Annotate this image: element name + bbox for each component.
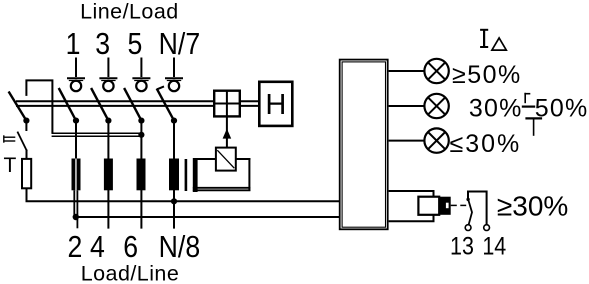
- CT primary winding pole N: [169, 159, 179, 191]
- secondary loop top edge: [197, 158, 250, 160]
- terminal X5 plug symbol: [132, 58, 150, 92]
- CT core: [185, 159, 188, 191]
- lamp HL2: [424, 94, 448, 118]
- actuator plunger block: [439, 197, 451, 215]
- label 13: [450, 232, 474, 260]
- switch blade pole 3: [124, 88, 141, 121]
- svg-text:6: 6: [123, 230, 138, 264]
- junction dot pole 2: [105, 118, 111, 124]
- terminal label N/8: [159, 230, 200, 264]
- lamp HL3: [424, 128, 448, 152]
- junction dot wire A at pole N: [171, 198, 177, 204]
- lamp HL1: [424, 59, 448, 83]
- aux contact pivot nub: [466, 198, 469, 201]
- mechanism double bar left: [16, 101, 213, 106]
- terminal circle 13: [465, 225, 471, 231]
- wire B tap to module: [76, 216, 339, 218]
- test button contact blade: [17, 132, 27, 151]
- terminal X3 plug symbol: [99, 58, 117, 92]
- terminal label 1: [66, 27, 81, 61]
- switch blade pole 2: [91, 88, 108, 121]
- crossed square horizontal divider: [213, 103, 241, 105]
- wire pole 1 upper: [75, 121, 77, 159]
- indicator box H: [259, 82, 292, 126]
- mechanism double bar right: [241, 101, 259, 106]
- terminal label 6: [123, 230, 138, 264]
- actuator inner square: [418, 197, 439, 215]
- junction dot pole 1 tap: [73, 214, 79, 220]
- range divider symbol: [522, 93, 542, 136]
- electronic module box outer: [340, 60, 388, 230]
- label 14: [482, 232, 506, 260]
- secondary loop bottom double edge: [193, 188, 251, 191]
- svg-text:N/7: N/7: [159, 27, 200, 61]
- wire button to resistor: [26, 150, 28, 160]
- svg-text:≥30%: ≥30%: [497, 190, 568, 221]
- actuator housing bottom: [389, 220, 435, 222]
- aux contact top wire: [468, 192, 487, 225]
- switch blade test pole: [9, 92, 27, 121]
- terminal label 4: [90, 230, 105, 264]
- CT primary winding pole 2: [104, 159, 113, 191]
- wire lamp 1: [389, 70, 425, 72]
- svg-text:4: 4: [90, 230, 105, 264]
- svg-text:50%: 50%: [535, 94, 589, 122]
- coupler crossed square U1: [214, 91, 240, 117]
- test button actuator symbol: [4, 135, 16, 142]
- wire lamp 3: [389, 140, 425, 142]
- svg-text:14: 14: [482, 232, 506, 260]
- switch blade pole 1: [59, 88, 76, 121]
- junction dot pole 3: [138, 118, 144, 124]
- plunger slot: [446, 203, 449, 209]
- svg-text:T: T: [4, 154, 17, 177]
- svg-text:N/8: N/8: [159, 230, 200, 264]
- terminal circle 14: [484, 225, 490, 231]
- test tap double wire to pole 3: [52, 133, 142, 136]
- wire pole 2: [107, 121, 109, 229]
- wire lamp 2: [389, 105, 425, 107]
- mechanical link dash 2: [460, 204, 466, 206]
- junction dot test pole: [23, 118, 29, 124]
- switch blade pole N: [157, 89, 174, 121]
- actuator housing top: [389, 190, 435, 192]
- svg-text:13: 13: [450, 232, 474, 260]
- svg-text:3: 3: [95, 27, 110, 61]
- wire pole 1 lower right: [76, 190, 78, 228]
- junction dot node tap pole3: [138, 132, 144, 138]
- terminal XN7 plug symbol: [165, 58, 183, 92]
- svg-text:Load/Line: Load/Line: [81, 262, 180, 284]
- mechanical link dash 1: [451, 204, 457, 206]
- actuator housing right: [433, 191, 435, 221]
- junction dot pole 1: [73, 118, 79, 124]
- label I delta: [480, 30, 506, 50]
- white split in winding 1: [75, 159, 76, 191]
- wire pole N: [173, 121, 175, 229]
- test circuit bracket wire: [26, 80, 52, 133]
- CT primary winding pole 3: [137, 159, 146, 191]
- trip relay diagonal: [217, 150, 234, 168]
- terminal label 2: [67, 230, 82, 264]
- svg-text:≤30%: ≤30%: [450, 130, 522, 158]
- terminal label N/7: [159, 27, 200, 61]
- CT primary winding pole 1: [72, 159, 81, 191]
- CT secondary winding bar: [193, 158, 198, 192]
- wire resistor down corner: [27, 188, 340, 201]
- terminal X1 plug symbol: [67, 58, 85, 92]
- arrowhead: [223, 129, 232, 139]
- wire pole 1 lower left: [73, 190, 75, 217]
- svg-text:Line/Load: Line/Load: [80, 0, 179, 23]
- secondary loop right edge: [248, 158, 250, 191]
- svg-text:H: H: [265, 89, 286, 121]
- blade hook pole N: [157, 86, 164, 89]
- trip relay K1: [216, 148, 236, 171]
- svg-text:2: 2: [67, 230, 82, 264]
- crossed square vertical divider: [226, 90, 228, 118]
- junction dot pole N: [171, 118, 177, 124]
- wire pole 3: [140, 121, 142, 229]
- terminal label 3: [95, 27, 110, 61]
- svg-text:≥50%: ≥50%: [452, 61, 522, 89]
- wire test pole to button contact: [25, 121, 27, 131]
- resistor R test: [22, 159, 31, 188]
- terminal label 5: [127, 27, 142, 61]
- trip actuation arrow: [226, 118, 228, 148]
- electronic module box inner line: [342, 62, 385, 227]
- svg-text:5: 5: [127, 27, 142, 61]
- aux contact blade: [468, 200, 472, 225]
- svg-text:30%: 30%: [469, 94, 523, 122]
- svg-text:1: 1: [66, 27, 81, 61]
